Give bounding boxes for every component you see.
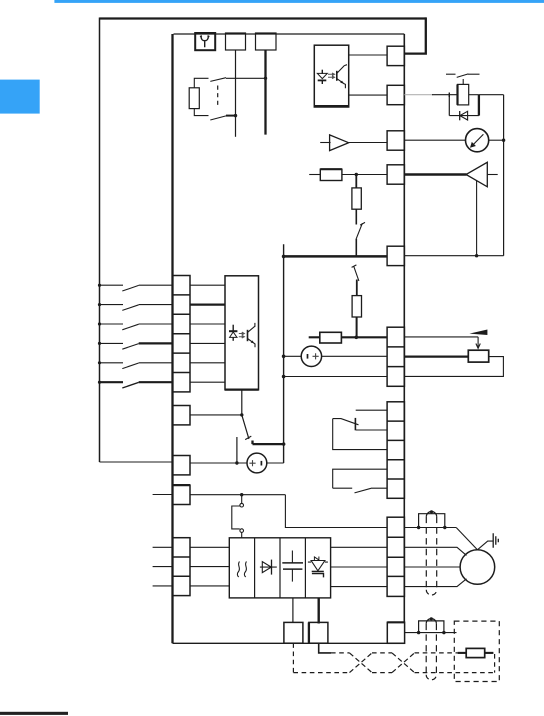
terminal RP <box>173 406 191 425</box>
wire motor frame to earth <box>477 541 493 550</box>
wire resistor top lead <box>194 78 208 88</box>
module outline <box>229 538 330 598</box>
select left throw <box>236 437 238 463</box>
current source CS2 (I +) <box>301 346 321 366</box>
wire 24V common loop top <box>100 17 426 19</box>
wire pole1 to T3 drop <box>226 77 266 79</box>
wire resistor return (dashed) <box>494 654 496 673</box>
terminal stack S1-S6 <box>173 276 191 392</box>
meter circle <box>466 129 489 152</box>
shield clamp bracket motor cable <box>419 514 445 528</box>
wire S1 terminal to coupler <box>190 284 225 286</box>
coil top lead <box>462 79 464 84</box>
terminal r1 <box>173 485 191 504</box>
wire S6 terminal to coupler <box>190 381 225 383</box>
amp output stub <box>487 174 497 176</box>
resistor R-lad3 <box>352 296 361 317</box>
node shield clamp right <box>443 526 446 529</box>
right return riser <box>503 95 505 256</box>
external contact over coil <box>446 74 480 78</box>
relay2 bracket <box>333 469 387 488</box>
wire S to module <box>190 566 229 568</box>
wire AC-common right side <box>404 255 503 257</box>
node pole1/T3 <box>264 77 267 80</box>
photocoupler box U-out <box>314 45 348 107</box>
select blade tick <box>245 436 251 440</box>
flyback diode <box>449 111 479 120</box>
ladder contact lower tick <box>352 265 357 268</box>
switch S3 <box>98 322 173 329</box>
wire W phase to motor <box>404 579 466 587</box>
terminal SC <box>173 456 191 475</box>
buffer input stub <box>320 142 330 144</box>
wire module B lead down (thick) <box>318 598 320 624</box>
wire r1 to ground terminal drop <box>285 495 387 528</box>
node common/FI row <box>282 355 286 359</box>
sidebar blue tab <box>0 80 40 114</box>
wire FI to pot (thick) <box>404 355 468 357</box>
wire U phase to motor <box>404 547 466 555</box>
brake cable upper rail (dashed) <box>331 652 458 654</box>
select blade <box>242 415 249 439</box>
light arrows (in U-out) <box>328 73 335 79</box>
cable twist 2 <box>392 653 415 673</box>
relay2 blade <box>355 488 372 493</box>
shield clamp bracket brake cable <box>419 621 444 633</box>
node select pole <box>240 413 243 416</box>
relay1 pole bar <box>354 418 356 430</box>
wire S3 terminal to coupler <box>190 323 225 325</box>
DC bus capacitor <box>282 551 303 582</box>
switch S1 <box>98 284 173 291</box>
node capsule top <box>430 510 433 513</box>
wire module W out <box>331 586 388 588</box>
footer black rule <box>0 712 68 715</box>
wire FM row to ladder <box>342 174 387 176</box>
relay1 blade <box>333 419 359 425</box>
terminal B2 <box>309 622 328 643</box>
node ladder/FV row <box>355 336 359 340</box>
wire relay2 to M4 <box>371 487 387 489</box>
wire M2 to relay (grey then black) <box>404 94 433 96</box>
node FM/ladder <box>355 173 358 176</box>
terminal AM <box>387 131 404 150</box>
wire common to SC terminal <box>100 461 173 463</box>
node meter/riser <box>502 139 505 142</box>
node shield clamp left <box>417 526 420 529</box>
ladder contact lower blade <box>354 266 359 281</box>
wire 24V common loop left drop <box>99 18 101 463</box>
photodiode (in U-out) <box>317 70 327 84</box>
wire MB lead <box>356 429 387 431</box>
terminal FM <box>387 165 404 184</box>
terminal G <box>387 622 404 643</box>
wire U-out collector to M1 <box>349 54 387 56</box>
module divider 3 <box>304 538 306 598</box>
relay1 common bracket <box>333 419 387 450</box>
wire pole2 to T2 drop (thick) <box>226 115 236 117</box>
breaker gang link (dashed) <box>217 86 219 109</box>
node relay left <box>448 93 450 98</box>
resistor R-lad1 <box>320 169 342 180</box>
wire R external stub <box>153 546 173 548</box>
wire relay to right riser <box>479 94 504 96</box>
node clamp2 right <box>442 631 445 634</box>
wire FM to amp (thick) <box>404 173 466 175</box>
wire r1 to jumper node <box>190 494 285 496</box>
wire r1 external stub <box>153 494 173 496</box>
wire V phase to motor <box>404 566 460 568</box>
wire RP to select pole <box>190 414 242 416</box>
node pole2/T2 <box>234 114 237 117</box>
wire SC to source <box>190 462 247 464</box>
terminal M2 <box>387 85 404 104</box>
inverter enclosure top border <box>174 33 405 35</box>
node amp return <box>475 254 478 257</box>
phototransistor (in U-in) <box>248 323 256 347</box>
relay2 lower lead <box>333 487 353 489</box>
wire pot return loop <box>404 357 503 377</box>
inverter enclosure left border <box>171 34 173 643</box>
wire R-lad3 to FV row <box>356 317 358 338</box>
terminal stack R/S/T <box>173 538 191 596</box>
terminal box T3 (control supply) <box>256 33 277 50</box>
wire blade to R-lad3 <box>356 280 358 296</box>
wire buffer to AM <box>349 142 388 144</box>
switch S6 <box>98 381 173 388</box>
analog common riser <box>283 244 285 463</box>
photodiode (in U-in) <box>229 325 237 341</box>
wire B1 drop (dashed) <box>292 643 294 672</box>
IGBT inverter symbol <box>308 557 328 578</box>
node select left throw <box>235 461 238 464</box>
wire resistor bottom lead <box>194 109 208 116</box>
node jumper tap <box>240 493 243 496</box>
switch S2 <box>98 303 173 310</box>
wire shield to motor frame <box>456 528 477 550</box>
node right throw to bus <box>282 442 285 445</box>
wire module V out <box>331 566 388 568</box>
terminal box T2 (control supply) <box>226 33 246 50</box>
wire source to bus <box>267 462 284 464</box>
wire T external stub <box>153 585 173 587</box>
phototransistor (in U-out) <box>337 65 347 89</box>
ladder contact upper tick <box>360 222 365 225</box>
module divider 2 <box>279 538 281 598</box>
terminal AC-common <box>387 246 404 265</box>
node common/AC2 row <box>282 375 286 379</box>
wire coupler emitter drop <box>241 390 243 415</box>
shield capsule brake cable (dashed) <box>426 624 436 675</box>
wire R to module <box>190 546 229 548</box>
wire T to module <box>190 585 229 587</box>
node capsule2 top <box>430 617 433 620</box>
wire module U out <box>331 546 388 548</box>
brake cable lower rail (dashed) <box>293 672 494 674</box>
wire contact to common <box>355 239 357 258</box>
wire S2 terminal to coupler (thick) <box>190 303 225 305</box>
resistor R-soft-charge <box>189 88 199 109</box>
terminal B1 <box>284 622 303 643</box>
wire common to AC terminal (thick) <box>284 255 388 258</box>
node common top <box>282 255 286 259</box>
wire common to source FI <box>284 355 302 357</box>
buffer triangle <box>330 135 349 151</box>
wire B2 drop solid <box>319 643 331 653</box>
wire U-out emitter to M2 <box>349 94 387 96</box>
breaker pole 2 blade <box>210 116 226 120</box>
wire S5 terminal to coupler <box>190 362 225 364</box>
wire FV to wiper <box>404 336 478 338</box>
resistor R-lad2 <box>352 188 361 209</box>
motor circle <box>460 550 495 585</box>
wire module P lead down <box>292 598 294 623</box>
resistor R-lad1 left lead <box>309 174 320 176</box>
cable twist 1 <box>350 653 373 673</box>
amp triangle <box>466 162 487 187</box>
relay branch right leg (thick) <box>478 95 480 116</box>
wire MA lead <box>356 409 387 411</box>
resistor R-FV left lead (thick) <box>309 336 320 338</box>
terminal stack E/U/V/W <box>387 517 404 596</box>
wire S4 terminal to coupler <box>190 342 225 344</box>
select right throw (thick) <box>253 441 285 445</box>
light arrows (in U-in) <box>239 332 245 338</box>
wire AM to meter <box>404 139 465 141</box>
breaker pole 1 blade <box>210 78 226 82</box>
wire S external stub <box>153 566 173 568</box>
braking unit box (dashed) <box>454 621 499 681</box>
wire meter to riser <box>489 139 504 141</box>
node clamp2 left <box>417 631 420 634</box>
terminal stack MA/MB/MC/M3/M4 <box>387 402 404 499</box>
relay branch left leg <box>448 95 450 116</box>
wire from T3 down (thick) <box>264 50 266 135</box>
braking resistor left lead (thick) <box>458 652 467 654</box>
photocoupler box U-in <box>225 276 259 390</box>
terminal stack FV/FI/AC2 <box>387 327 404 386</box>
wiper arrow <box>476 337 480 348</box>
AC filter squiggles <box>237 562 246 578</box>
wire ladder upper lead <box>355 175 357 188</box>
wire source FI to terminal <box>322 355 388 357</box>
switch S4 <box>98 342 173 349</box>
wire from T2 down <box>235 50 237 137</box>
wire R-lad2 to contact <box>355 209 357 224</box>
shield capsule motor cable (dashed) <box>426 517 436 590</box>
earth ground bars <box>493 533 498 548</box>
inverter enclosure right border (terminal bus) <box>403 34 405 622</box>
terminal M1 <box>387 46 404 65</box>
inverter enclosure bottom border <box>173 642 405 644</box>
switch S5 <box>98 361 173 368</box>
rectifier diode <box>260 560 277 575</box>
wire common to AC2 terminal <box>284 376 388 378</box>
fan power jumper connector <box>232 495 244 538</box>
current source CS1 (+ I) <box>247 453 267 473</box>
wire R-FV to FV terminal (thick) <box>341 336 387 338</box>
wire 24V common loop right drop <box>405 17 426 53</box>
wire G to shield clamp 2 <box>405 632 457 634</box>
header blue rule <box>54 0 544 3</box>
module divider 1 <box>254 538 256 598</box>
ladder contact upper blade <box>356 223 362 238</box>
braking resistor body <box>466 648 485 657</box>
adjustment wedge <box>469 330 487 336</box>
potentiometer body <box>468 350 488 362</box>
terminal keypad-port box with Y symbol <box>195 33 215 50</box>
relay coil RY <box>458 84 469 105</box>
wire coil right to node <box>469 94 479 96</box>
resistor R-FV <box>320 332 342 343</box>
wire shield row <box>404 527 456 529</box>
braking resistor right lead (thick) <box>485 652 494 654</box>
wire amp return drop <box>476 181 478 256</box>
